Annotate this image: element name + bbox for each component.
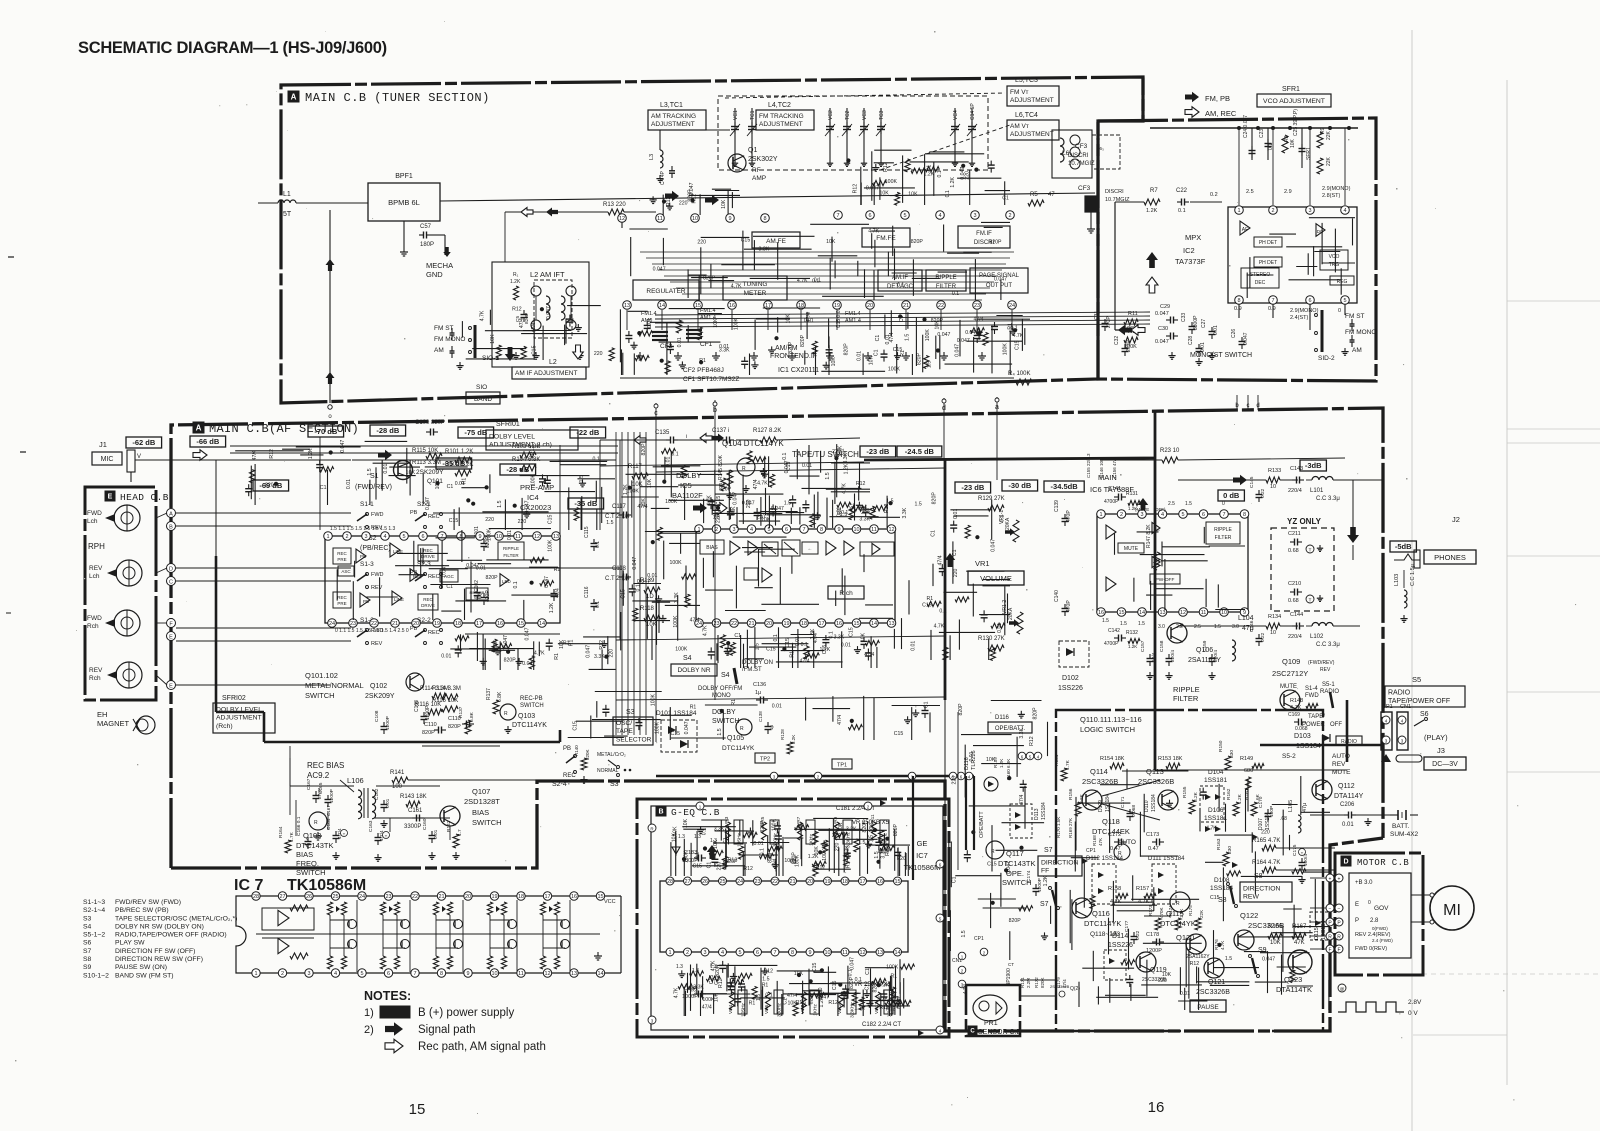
svg-text:L6₃: L6₃: [1097, 146, 1104, 151]
svg-text:C139: C139: [1054, 500, 1060, 512]
svg-text:R117: R117: [628, 464, 643, 470]
svg-text:C15: C15: [1014, 340, 1020, 350]
svg-text:4: 4: [721, 950, 724, 956]
svg-text:6: 6: [868, 213, 871, 219]
svg-text:0.047: 0.047: [784, 460, 790, 473]
extra AF buses: [600, 462, 864, 466]
svg-text:L106: L106: [347, 776, 364, 785]
IC7 body outline with notch: [236, 896, 253, 973]
svg-text:CX20023: CX20023: [520, 503, 551, 512]
svg-text:270P: 270P: [1126, 340, 1132, 352]
svg-text:DTC143TK: DTC143TK: [998, 859, 1036, 868]
svg-text:C22: C22: [1176, 188, 1188, 194]
svg-text:NORMAL: NORMAL: [597, 768, 619, 774]
svg-text:DIRECTION: DIRECTION: [1243, 885, 1280, 892]
svg-text:7: 7: [836, 213, 839, 219]
svg-text:4.7K: 4.7K: [479, 310, 485, 321]
svg-text:S5-1~2: S5-1~2: [83, 932, 105, 939]
svg-text:100K: 100K: [822, 848, 828, 861]
svg-text:AMP: AMP: [752, 175, 766, 182]
wires head to switches: [176, 512, 351, 514]
svg-text:C108: C108: [374, 710, 380, 722]
svg-text:3: 3: [364, 534, 367, 540]
svg-text:R12: R12: [718, 978, 724, 988]
svg-text:820P: 820P: [524, 313, 530, 324]
svg-text:1.5: 1.5: [784, 501, 791, 507]
svg-text:METER: METER: [744, 290, 767, 297]
svg-text:R171: R171: [1020, 977, 1025, 988]
svg-text:C1: C1: [492, 645, 498, 652]
svg-text:0.01: 0.01: [772, 704, 782, 710]
tuner top mid components: [864, 187, 915, 189]
svg-text:16: 16: [877, 879, 883, 885]
svg-text:0.047: 0.047: [954, 344, 960, 357]
svg-text:PB: PB: [360, 554, 366, 559]
svg-text:MIC: MIC: [101, 456, 114, 463]
svg-text:2SK209Y: 2SK209Y: [365, 693, 395, 700]
under-IC1 component row: [650, 321, 684, 323]
svg-text:4.7K: 4.7K: [934, 624, 945, 630]
svg-text:C116: C116: [584, 586, 590, 598]
transistor Q1 2SK302Y: [660, 129, 730, 131]
svg-text:1.3: 1.3: [678, 834, 685, 840]
svg-text:R168: R168: [1092, 835, 1097, 846]
IC1 internal wires: [629, 228, 667, 230]
svg-text:DC: DC: [1154, 527, 1160, 532]
svg-text:DTC114YK: DTC114YK: [722, 745, 755, 752]
svg-text:CF2 PFB468J: CF2 PFB468J: [683, 367, 724, 374]
svg-text:1.5: 1.5: [367, 468, 373, 475]
svg-text:47/4: 47/4: [772, 858, 778, 868]
svg-text:R164: R164: [278, 826, 284, 838]
svg-text:MI: MI: [1443, 902, 1461, 919]
svg-text:0.047: 0.047: [816, 994, 829, 1000]
svg-text:2.4 (FWD): 2.4 (FWD): [1372, 938, 1393, 943]
svg-text:3.3K: 3.3K: [846, 827, 857, 833]
svg-text:6: 6: [1202, 512, 1205, 518]
svg-text:10K: 10K: [490, 334, 496, 344]
AF section label: [193, 422, 204, 433]
svg-text:R161: R161: [1244, 788, 1250, 800]
svg-text:TAPE SELECTOR/OSC (METAL/CrO₂,: TAPE SELECTOR/OSC (METAL/CrO₂,*): [115, 915, 237, 922]
svg-text:Lch: Lch: [87, 518, 98, 525]
svg-text:R12: R12: [1190, 961, 1200, 967]
svg-text:1SS184: 1SS184: [1210, 885, 1234, 892]
svg-text:R140: R140: [574, 745, 579, 756]
svg-text:820P: 820P: [844, 343, 850, 356]
svg-text:100K: 100K: [654, 721, 660, 734]
svg-text:R150: R150: [1218, 740, 1224, 752]
svg-text:19: 19: [434, 621, 440, 627]
svg-text:6: 6: [387, 971, 390, 977]
svg-text:REC: REC: [428, 514, 440, 520]
heavy wires S5 area: [1260, 744, 1383, 747]
svg-text:12: 12: [1180, 610, 1186, 616]
svg-text:0.047: 0.047: [546, 306, 552, 319]
FM.FE box: [862, 228, 910, 247]
svg-text:C174: C174: [1026, 870, 1032, 882]
svg-text:C117: C117: [612, 504, 627, 510]
svg-text:10K: 10K: [721, 199, 727, 209]
svg-text:Q(2): Q(2): [1070, 986, 1080, 992]
svg-text:10: 10: [824, 950, 830, 956]
svg-text:IC7: IC7: [916, 851, 928, 860]
svg-text:a: a: [995, 404, 999, 411]
sensor C.B label: [968, 1026, 977, 1035]
svg-text:-35 dB: -35 dB: [574, 499, 598, 508]
svg-text:S4: S4: [83, 923, 92, 930]
svg-text:ADJUSTMENT: ADJUSTMENT: [216, 715, 262, 722]
svg-text:820P: 820P: [265, 483, 278, 489]
svg-text:Q105: Q105: [727, 735, 744, 742]
switch SID-2: [1321, 310, 1324, 352]
svg-text:C.C 1.5μ: C.C 1.5μ: [1410, 564, 1416, 586]
svg-text:BAND SW (FM ST): BAND SW (FM ST): [115, 972, 174, 979]
svg-text:0.047: 0.047: [522, 661, 535, 667]
svg-text:27: 27: [279, 894, 285, 900]
svg-text:DTA114Y: DTA114Y: [1334, 793, 1364, 800]
svg-text:15: 15: [853, 621, 859, 627]
svg-text:DIRECTION: DIRECTION: [1041, 859, 1078, 866]
svg-text:1: 1: [326, 534, 329, 540]
svg-text:SFR1: SFR1: [1306, 147, 1312, 160]
svg-text:0.047: 0.047: [340, 440, 346, 453]
svg-text:0.047: 0.047: [466, 563, 479, 569]
svg-text:−: −: [1338, 906, 1341, 912]
svg-text:LED: LED: [502, 579, 512, 584]
svg-text:A: A: [196, 424, 202, 433]
svg-text:820P: 820P: [486, 575, 499, 581]
svg-text:C206: C206: [1340, 802, 1355, 808]
svg-text:MUTE: MUTE: [1280, 684, 1297, 690]
svg-text:5: 5: [1181, 512, 1184, 518]
svg-text:3.3K: 3.3K: [714, 826, 725, 832]
svg-text:LOGIC SWITCH: LOGIC SWITCH: [1080, 725, 1135, 734]
dB box -24.5dB: [897, 446, 942, 457]
svg-text:VC4: VC4: [953, 110, 959, 120]
svg-text:FRONTEND.IF: FRONTEND.IF: [770, 353, 817, 360]
svg-text:SFRI02: SFRI02: [222, 695, 246, 702]
svg-text:1SS184: 1SS184: [1041, 802, 1047, 820]
svg-text:R1: R1: [690, 705, 697, 711]
svg-text:HEAD C.B: HEAD C.B: [120, 492, 169, 503]
svg-text:C15: C15: [548, 515, 554, 525]
motor pin pads: [1335, 874, 1343, 882]
svg-text:2SA1162Y: 2SA1162Y: [1186, 954, 1210, 960]
svg-text:C183: C183: [684, 850, 697, 856]
svg-text:POWER: POWER: [1302, 722, 1325, 728]
svg-text:13: 13: [888, 621, 894, 627]
svg-text:1.5: 1.5: [755, 643, 761, 650]
svg-text:TAPE/: TAPE/: [1308, 714, 1325, 720]
dB box -69dB: [253, 480, 289, 491]
svg-text:22K: 22K: [1326, 156, 1332, 166]
svg-text:Q102: Q102: [370, 683, 387, 690]
svg-text:C179: C179: [1056, 977, 1061, 988]
svg-text:11: 11: [871, 527, 877, 533]
svg-text:VCO ADJUSTMENT: VCO ADJUSTMENT: [1263, 98, 1325, 105]
svg-text:220: 220: [608, 649, 614, 658]
svg-text:D106: D106: [1208, 807, 1224, 814]
svg-text:0.1: 0.1: [702, 828, 708, 835]
svg-text:S8: S8: [83, 956, 92, 963]
IC4 bottom pins 24-14: [328, 619, 337, 628]
svg-text:REC: REC: [428, 630, 440, 636]
svg-text:4: 4: [1161, 512, 1164, 518]
svg-text:VCO: VCO: [1329, 254, 1340, 260]
svg-text:R: R: [1176, 901, 1180, 907]
svg-text:R137: R137: [458, 706, 464, 718]
svg-text:FM1.4: FM1.4: [641, 311, 657, 317]
svg-text:4.7K: 4.7K: [842, 483, 848, 494]
svg-text:AM1.4: AM1.4: [845, 318, 861, 324]
svg-text:0.01: 0.01: [953, 509, 959, 519]
svg-text:10K: 10K: [788, 1000, 798, 1006]
svg-text:10K: 10K: [683, 818, 689, 828]
svg-text:FWD: FWD: [1305, 693, 1319, 699]
svg-text:1: 1: [668, 950, 671, 956]
svg-text:4: 4: [383, 534, 386, 540]
svg-text:820P: 820P: [719, 487, 732, 493]
svg-text:C27: C27: [1201, 319, 1207, 328]
svg-text:100K: 100K: [925, 329, 931, 342]
svg-text:SENSOR C.B: SENSOR C.B: [978, 1029, 1022, 1036]
svg-text:S2-4: S2-4: [552, 781, 567, 788]
svg-text:C167: C167: [326, 805, 331, 816]
preamp area texture: [640, 486, 679, 488]
svg-text:AM TRACKING: AM TRACKING: [651, 113, 696, 120]
svg-text:820P: 820P: [641, 443, 647, 456]
svg-text:13: 13: [553, 534, 559, 540]
svg-text:YZ ONLY: YZ ONLY: [1287, 517, 1322, 526]
svg-text:RADIO: RADIO: [1388, 690, 1411, 697]
IC6 internals: [1106, 525, 1116, 539]
svg-text:3: 3: [1140, 512, 1143, 518]
svg-text:820K: 820K: [585, 749, 590, 760]
svg-text:3.3K: 3.3K: [719, 348, 730, 354]
svg-text:8: 8: [791, 950, 794, 956]
svg-text:FM1.4: FM1.4: [845, 311, 861, 317]
svg-text:C177: C177: [1124, 920, 1130, 932]
svg-text:V: V: [137, 454, 141, 460]
svg-text:FILTER: FILTER: [503, 553, 519, 558]
svg-text:L5,TC3: L5,TC3: [1015, 77, 1038, 84]
svg-text:1.5: 1.5: [915, 502, 922, 508]
svg-text:20: 20: [807, 879, 813, 885]
G-EQ top cap network: [794, 828, 862, 830]
logic switch sub-border: [1056, 710, 1323, 1031]
svg-text:S1-3: S1-3: [360, 561, 374, 568]
svg-text:-28 dB: -28 dB: [376, 426, 400, 435]
svg-text:DOLBY NR SW (DOLBY ON): DOLBY NR SW (DOLBY ON): [115, 923, 204, 930]
svg-text:AF: AF: [1242, 227, 1248, 233]
svg-text:D104: D104: [1208, 769, 1224, 776]
svg-text:220: 220: [835, 842, 841, 851]
svg-text:3300P: 3300P: [1193, 315, 1199, 330]
svg-text:S9: S9: [83, 964, 92, 971]
svg-text:D102: D102: [1062, 675, 1079, 682]
svg-text:8.2K: 8.2K: [1079, 793, 1085, 804]
svg-text:4.7/4: 4.7/4: [962, 983, 967, 994]
svg-text:S3: S3: [626, 709, 635, 716]
svg-text:C15: C15: [766, 647, 776, 653]
svg-text:SCHEMATIC DIAGRAM—1 (HS-J09/J6: SCHEMATIC DIAGRAM—1 (HS-J09/J600): [78, 39, 387, 57]
svg-text:C25 39(P.P): C25 39(P.P): [1293, 109, 1299, 136]
svg-text:47/4: 47/4: [519, 318, 525, 328]
svg-text:C1: C1: [478, 592, 484, 599]
svg-text:R151: R151: [1054, 754, 1060, 766]
svg-text:R148: R148: [1290, 698, 1303, 704]
svg-text:R1: R1: [699, 358, 706, 364]
svg-text:220: 220: [1158, 978, 1167, 984]
svg-text:2SD1328T: 2SD1328T: [464, 797, 500, 806]
svg-text:C163: C163: [368, 820, 374, 832]
svg-text:C171: C171: [1120, 796, 1126, 808]
svg-text:C.C 3.3μ: C.C 3.3μ: [1316, 642, 1340, 648]
svg-text:L1: L1: [283, 191, 291, 198]
svg-text:R: R: [314, 820, 318, 826]
svg-text:1.5: 1.5: [886, 498, 893, 504]
svg-text:DOLBY: DOLBY: [712, 709, 736, 716]
svg-text:BIAS: BIAS: [706, 545, 718, 551]
svg-text:10: 10: [853, 527, 859, 533]
svg-text:3: 3: [307, 971, 310, 977]
svg-text:d: d: [942, 405, 946, 412]
svg-text:C1: C1: [951, 876, 957, 883]
REGULATER box: [633, 280, 699, 300]
svg-text:1.5: 1.5: [756, 994, 762, 1001]
svg-text:C1: C1: [446, 584, 453, 590]
svg-text:3.3K: 3.3K: [902, 507, 908, 518]
svg-text:C115: C115: [584, 526, 590, 538]
svg-text:PRE-AMP: PRE-AMP: [520, 483, 554, 492]
svg-text:2: 2: [686, 950, 689, 956]
svg-text:D113: D113: [1034, 808, 1040, 820]
svg-text:CF3: CF3: [1078, 185, 1091, 192]
Q112 DTA114Y: [1312, 780, 1332, 800]
svg-text:4.7K: 4.7K: [1206, 826, 1217, 832]
svg-text:S4: S4: [721, 672, 730, 679]
svg-text:C110: C110: [424, 722, 437, 728]
svg-text:R153 18K: R153 18K: [1158, 756, 1183, 762]
sensor C.B internals PR1: [973, 995, 1007, 1021]
svg-text:E: E: [1355, 902, 1359, 908]
svg-text:4: 4: [750, 527, 753, 533]
svg-text:0.01: 0.01: [433, 829, 439, 839]
svg-text:3.3K: 3.3K: [674, 592, 680, 603]
svg-text:i: i: [686, 434, 687, 440]
svg-text:R: R: [1328, 934, 1332, 940]
svg-text:820P: 820P: [893, 823, 899, 836]
dB boxes right of VR1: [955, 482, 991, 493]
svg-text:10: 10: [496, 534, 502, 540]
svg-text:CN1: CN1: [1400, 704, 1411, 710]
svg-text:28: 28: [667, 879, 673, 885]
svg-text:Q114: Q114: [1090, 767, 1108, 776]
svg-text:R: R: [740, 726, 744, 732]
svg-text:8.2K: 8.2K: [1193, 791, 1199, 802]
svg-text:0.1: 0.1: [1178, 208, 1186, 214]
G-EQ node circles: [648, 824, 656, 832]
svg-text:FM TRACKING: FM TRACKING: [759, 113, 804, 120]
svg-text:0.01: 0.01: [997, 623, 1003, 633]
svg-text:PH DET: PH DET: [1259, 240, 1277, 246]
svg-text:4: 4: [334, 971, 337, 977]
svg-text:(FWD/REV): (FWD/REV): [1308, 660, 1335, 666]
head wires + letter nodes: [167, 509, 176, 518]
svg-text:IC2: IC2: [1183, 246, 1195, 255]
svg-text:R1: R1: [1007, 323, 1013, 330]
IC2 TA7373F body: [1228, 207, 1357, 303]
svg-text:3300P: 3300P: [404, 824, 421, 830]
svg-text:1.3: 1.3: [710, 964, 717, 970]
svg-text:0.1: 0.1: [897, 282, 904, 288]
svg-text:C143: C143: [1290, 466, 1303, 472]
svg-text:Q109: Q109: [1282, 657, 1300, 666]
svg-text:7: 7: [440, 534, 443, 540]
svg-text:1.2K: 1.2K: [510, 279, 521, 285]
svg-text:TC1: TC1: [750, 110, 756, 120]
svg-text:FWD: FWD: [87, 510, 102, 517]
svg-text:L2 AM IFT: L2 AM IFT: [530, 270, 565, 279]
svg-text:12: 12: [888, 527, 894, 533]
svg-text:220: 220: [953, 569, 959, 578]
MPX left big arrows: [1146, 252, 1158, 268]
svg-text:Rch: Rch: [89, 675, 101, 682]
svg-text:C1: C1: [706, 862, 712, 869]
svg-text:20: 20: [867, 303, 873, 309]
svg-text:REGULATER: REGULATER: [646, 288, 686, 295]
svg-text:L104: L104: [1238, 615, 1254, 622]
svg-text:C33: C33: [1181, 313, 1187, 322]
svg-text:R₁: R₁: [513, 272, 519, 278]
svg-text:470P: 470P: [1066, 600, 1072, 612]
svg-text:1.5: 1.5: [961, 930, 967, 937]
svg-text:47/4: 47/4: [1019, 795, 1025, 805]
svg-text:820P: 820P: [958, 703, 964, 716]
svg-text:16: 16: [1098, 610, 1104, 616]
svg-text:C173: C173: [1146, 832, 1159, 838]
svg-text:S5-1: S5-1: [1322, 682, 1335, 688]
svg-text:R12: R12: [666, 196, 672, 206]
svg-text:13: 13: [624, 303, 630, 309]
svg-text:PB: PB: [410, 510, 418, 516]
svg-text:FM.IF: FM.IF: [976, 231, 992, 237]
svg-text:4.7K: 4.7K: [797, 278, 808, 284]
svg-text:C15: C15: [693, 864, 703, 870]
transistor Q101 2SK209Y: [394, 461, 413, 480]
svg-text:C14 5P: C14 5P: [970, 103, 976, 120]
svg-text:2.9(MONO): 2.9(MONO): [1322, 186, 1351, 192]
svg-text:0.4: 0.4: [1140, 501, 1147, 506]
svg-text:AM.FE: AM.FE: [766, 238, 787, 245]
svg-text:S1-4: S1-4: [1305, 686, 1318, 692]
svg-text:PAUSE SW (ON): PAUSE SW (ON): [115, 964, 167, 971]
gnd row under gang: [734, 160, 736, 163]
C25 39P vertical: [1301, 128, 1303, 168]
svg-text:0.1: 0.1: [937, 170, 943, 177]
svg-text:FWD: FWD: [87, 615, 102, 622]
svg-text:R127 8.2K: R127 8.2K: [753, 428, 781, 434]
svg-text:PB: PB: [363, 599, 369, 604]
svg-text:S7: S7: [83, 948, 92, 955]
svg-text:DOLBY NR: DOLBY NR: [677, 667, 710, 674]
svg-text:820K: 820K: [1040, 977, 1045, 988]
svg-text:15: 15: [518, 621, 524, 627]
svg-text:47/4: 47/4: [864, 652, 874, 658]
svg-text:VC3: VC3: [862, 110, 868, 120]
SFR1 22K vertical: [1317, 158, 1323, 174]
